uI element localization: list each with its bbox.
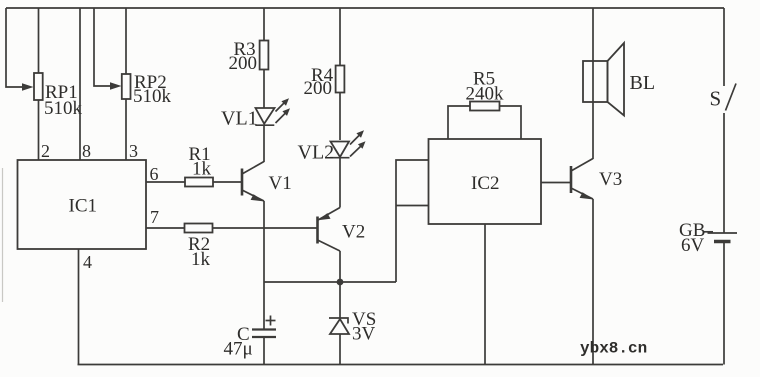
wire junction to IC2 left pins (396, 160, 429, 282)
label V2 (342, 222, 365, 243)
label RP1 510k (44, 82, 83, 119)
svg-text:6V: 6V (681, 235, 705, 256)
wire RP1 top lead (38, 8, 40, 73)
svg-text:1k: 1k (192, 159, 212, 180)
label VL1 (221, 108, 258, 130)
IC2 (429, 139, 542, 224)
label R5 240k (466, 69, 505, 105)
label VS 3V (352, 309, 376, 345)
wire VS to ground rail (339, 334, 341, 365)
svg-text:BL: BL (630, 72, 656, 94)
label C 47u (224, 324, 253, 360)
wire IC2 output to V3 base (541, 182, 571, 184)
wire battery to ground rail (723, 242, 725, 365)
svg-text:200: 200 (304, 78, 333, 99)
potentiometer RP2 (122, 74, 131, 99)
label R1 1k (189, 144, 212, 180)
label S (710, 87, 722, 111)
pin 6 label (150, 164, 159, 184)
svg-text:240k: 240k (466, 84, 505, 105)
wire V2 collector to junction (339, 251, 341, 282)
svg-text:510k: 510k (44, 98, 83, 119)
wire RP2 to IC1 pin 3 (125, 99, 127, 160)
svg-text:IC2: IC2 (471, 173, 500, 194)
svg-text:1k: 1k (191, 249, 211, 270)
wire IC1 pin 7 (146, 227, 185, 229)
label VL2 (298, 142, 335, 164)
label V1 (269, 173, 292, 194)
wire RP2 wiper feed (94, 8, 112, 86)
transistor V3 (571, 159, 594, 200)
wire rail to BL (592, 8, 594, 61)
capacitor C (252, 316, 276, 338)
wire top power rail (6, 7, 724, 9)
label GB 6V (679, 220, 705, 256)
wire R2 to V2 base (213, 227, 318, 229)
wire IC1 pin 4 to ground rail (78, 249, 80, 365)
wire R5 to IC2 top (500, 106, 522, 139)
pin 8 label (82, 141, 91, 161)
svg-text:200: 200 (229, 53, 258, 74)
wire BL to V3 collector (592, 102, 594, 159)
svg-text:3: 3 (129, 141, 138, 161)
svg-text:ybx8.cn: ybx8.cn (580, 340, 647, 358)
pin 2 label (41, 141, 50, 161)
wire R3 to rail (263, 8, 265, 41)
label BL (630, 72, 656, 94)
LED VL2 (330, 130, 366, 158)
wire junction to VS (339, 282, 341, 318)
RP1 wiper arrow (22, 83, 34, 91)
node junction dot (337, 279, 344, 286)
wire VL1 to R3 (263, 70, 265, 109)
wire IC1 pin 6 (146, 181, 185, 183)
wire V1 emitter down to C (263, 201, 265, 330)
switch S (726, 84, 737, 111)
svg-text:V1: V1 (269, 173, 292, 194)
wire R4 to rail (339, 8, 341, 66)
wire V1 collector to VL1 (263, 125, 265, 163)
svg-text:510k: 510k (133, 86, 172, 107)
wire rail right drop to switch (723, 8, 725, 86)
transistor V1 (242, 162, 265, 202)
wire VL2 to V2 emitter (339, 158, 341, 208)
svg-text:4: 4 (83, 252, 92, 272)
svg-text:VL2: VL2 (298, 142, 335, 164)
battery GB (703, 232, 737, 242)
wire bottom ground rail (78, 364, 724, 366)
label R4 200 (304, 65, 334, 99)
resistor R3 (260, 41, 269, 70)
wire RP1 wiper feed (6, 8, 24, 87)
wire V3 emitter to ground rail (592, 199, 594, 365)
svg-text:3V: 3V (352, 324, 376, 345)
pin 4 label (83, 252, 92, 272)
svg-text:S: S (710, 87, 722, 111)
wire R1 to V1 base (213, 181, 242, 183)
wire IC2 bottom to ground rail (484, 224, 486, 365)
wire IC2 top to R5 (448, 106, 470, 139)
svg-text:8: 8 (82, 141, 91, 161)
pin 7 label (150, 207, 159, 227)
label R3 200 (229, 39, 258, 74)
svg-text:VL1: VL1 (221, 108, 258, 130)
wire R4 to VL2 (339, 93, 341, 141)
label V3 (599, 169, 622, 190)
wire emitter junction line (264, 281, 396, 283)
svg-text:IC1: IC1 (69, 196, 98, 217)
svg-text:V2: V2 (342, 222, 365, 243)
resistor R5 (470, 102, 500, 111)
svg-text:7: 7 (150, 207, 159, 227)
wire IC1 pin 8 to rail (79, 8, 81, 160)
scan edge artifact left (2, 168, 4, 302)
transistor V2 (318, 208, 341, 252)
svg-text:6: 6 (150, 164, 159, 184)
wire RP2 top lead (125, 8, 127, 74)
zener VS (329, 318, 349, 334)
wire C to ground rail (263, 337, 265, 365)
resistor R1 (185, 178, 213, 187)
svg-text:V3: V3 (599, 169, 622, 190)
svg-text:47μ: 47μ (224, 339, 253, 360)
label R2 1k (188, 234, 211, 270)
speaker BL (583, 43, 624, 116)
wire switch to battery (723, 113, 725, 233)
resistor R2 (185, 224, 213, 233)
IC1 (18, 160, 147, 249)
svg-text:2: 2 (41, 141, 50, 161)
resistor R4 (336, 66, 345, 93)
pin 3 label (129, 141, 138, 161)
label RP2 510k (133, 72, 172, 107)
watermark ybx8.cn (580, 340, 647, 358)
LED VL1 (255, 98, 290, 125)
potentiometer RP1 (34, 73, 43, 100)
RP2 wiper arrow (110, 82, 122, 90)
wire RP1 to IC1 pin 2 (38, 100, 40, 160)
